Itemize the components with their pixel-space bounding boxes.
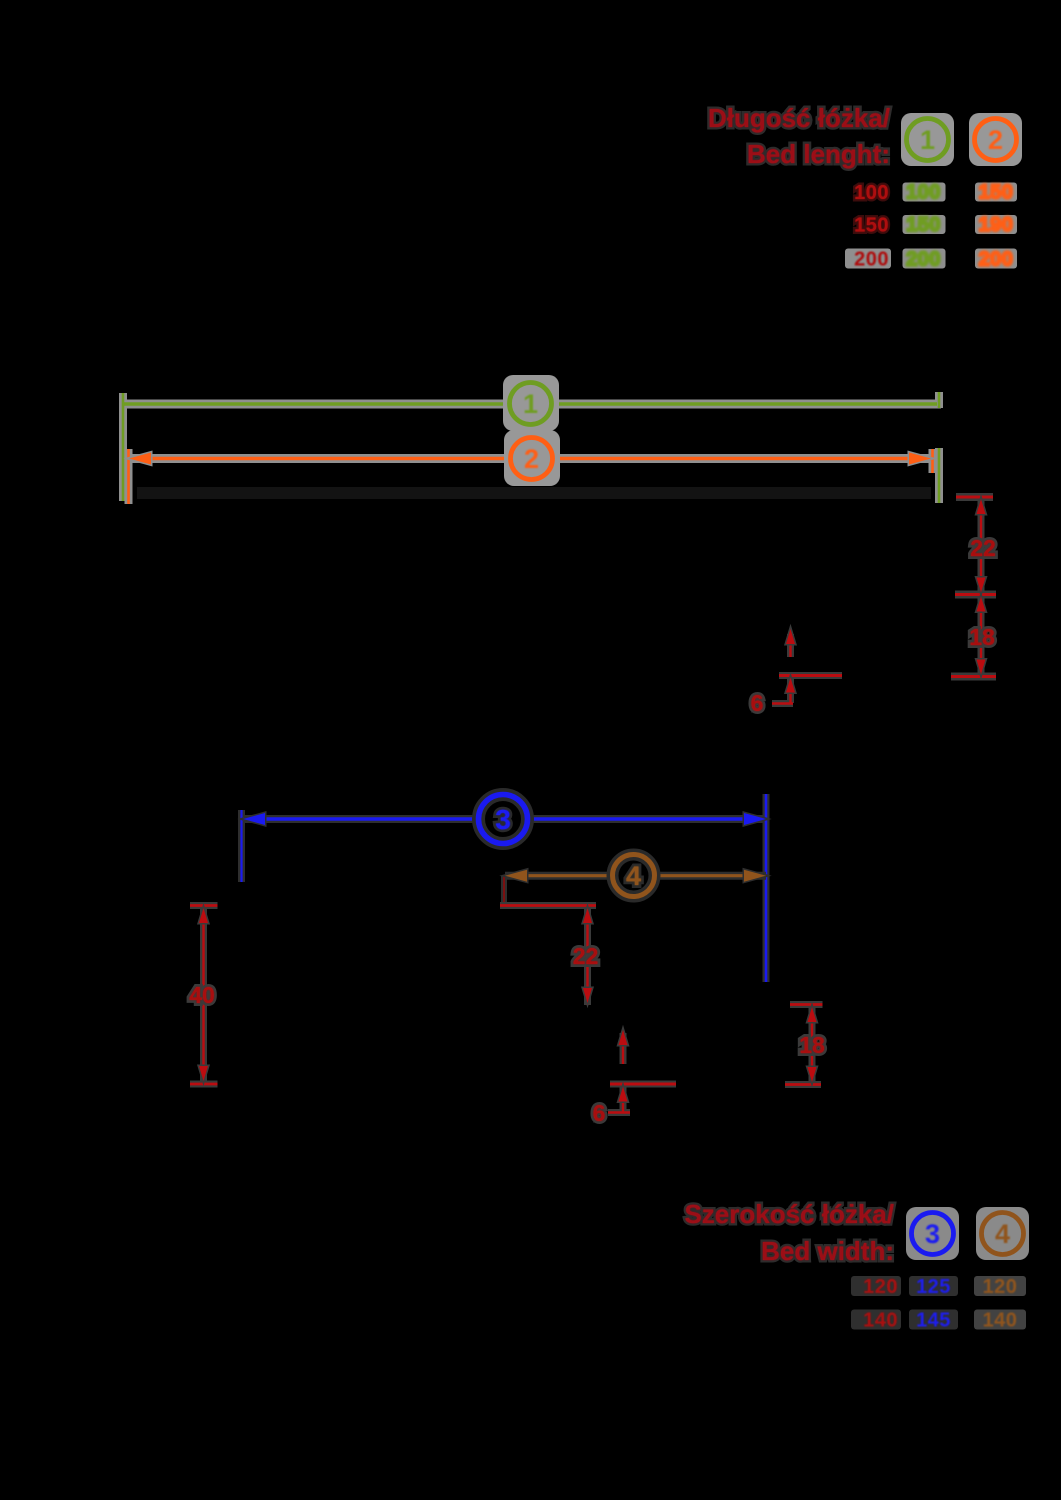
circle 4 badge (legend)	[976, 1207, 1029, 1260]
circle 1 ring	[510, 383, 552, 425]
red dimension 40 (left of drawing 2)	[190, 905, 218, 1084]
svg-text:120: 120	[983, 1276, 1018, 1298]
red dimension 22 (drawing 2)	[500, 906, 596, 1006]
svg-text:1: 1	[523, 389, 538, 419]
circle 3	[479, 795, 528, 844]
svg-text:100: 100	[906, 182, 941, 204]
svg-text:1: 1	[920, 125, 935, 155]
svg-text:150: 150	[906, 214, 941, 236]
orange arrow left	[129, 453, 151, 465]
svg-text:Bed width:: Bed width:	[761, 1236, 894, 1266]
svg-text:200: 200	[906, 249, 941, 271]
svg-text:6: 6	[593, 1100, 606, 1126]
svg-text:2: 2	[988, 125, 1003, 155]
svg-text:22: 22	[573, 943, 599, 969]
red dimension 18 (drawing 2 right)	[785, 1004, 823, 1085]
legend circle 1 ring	[907, 119, 949, 161]
legend circle 2 ring	[975, 119, 1017, 161]
legend circle 4 ring	[982, 1213, 1024, 1255]
circle 2 badge (legend)	[969, 113, 1022, 166]
blue dimension line 3	[242, 794, 767, 982]
svg-text:150: 150	[854, 215, 889, 237]
svg-text:120: 120	[863, 1276, 898, 1298]
svg-text:3: 3	[925, 1219, 940, 1249]
svg-text:18: 18	[969, 624, 995, 650]
orange dimension line 2 halo	[129, 449, 933, 504]
circle 1 badge	[503, 375, 559, 431]
green dimension line 1 halo	[123, 392, 941, 503]
svg-text:22: 22	[970, 535, 996, 561]
svg-text:200: 200	[979, 249, 1014, 271]
svg-text:4: 4	[995, 1219, 1010, 1249]
svg-text:4: 4	[626, 861, 641, 891]
svg-text:Bed lenght:: Bed lenght:	[747, 139, 890, 169]
svg-text:Szerokość łóżka/: Szerokość łóżka/	[684, 1199, 894, 1229]
svg-text:200: 200	[854, 249, 889, 271]
svg-text:2: 2	[524, 444, 539, 474]
svg-text:140: 140	[983, 1310, 1018, 1332]
circle 2 badge	[504, 430, 560, 486]
svg-text:3: 3	[495, 804, 511, 835]
svg-text:40: 40	[189, 982, 215, 1008]
circle 2 ring	[511, 438, 553, 480]
faint top rail band of profile drawing 1	[137, 487, 931, 499]
svg-text:145: 145	[916, 1310, 951, 1332]
row 2	[851, 1310, 901, 1330]
red chain arrows	[977, 499, 986, 675]
circle 4	[613, 855, 655, 897]
row 3	[845, 249, 891, 269]
orange dimension line 2	[129, 449, 933, 504]
svg-text:190: 190	[979, 214, 1014, 236]
svg-text:150: 150	[979, 182, 1014, 204]
brown dim left extension (dark red)	[503, 876, 505, 903]
green dimension line 1	[123, 392, 939, 503]
circle 3 badge (legend)	[906, 1207, 959, 1260]
svg-text:Długość łóżka/: Długość łóżka/	[708, 103, 890, 133]
svg-text:6: 6	[751, 690, 764, 716]
legend circle 3 ring	[912, 1213, 954, 1255]
red chain dimension right (22 / 18)	[951, 497, 996, 677]
red callout 6 (drawing 2)	[608, 1033, 676, 1113]
row 1	[851, 1276, 901, 1296]
svg-text:140: 140	[863, 1310, 898, 1332]
svg-text:100: 100	[854, 182, 889, 204]
red callout 6 (drawing 1)	[772, 634, 842, 704]
svg-text:125: 125	[916, 1276, 951, 1298]
svg-text:18: 18	[799, 1032, 825, 1058]
orange arrow right	[909, 453, 931, 465]
brown dimension line 4	[504, 876, 766, 903]
circle 1 badge (legend)	[901, 113, 954, 166]
